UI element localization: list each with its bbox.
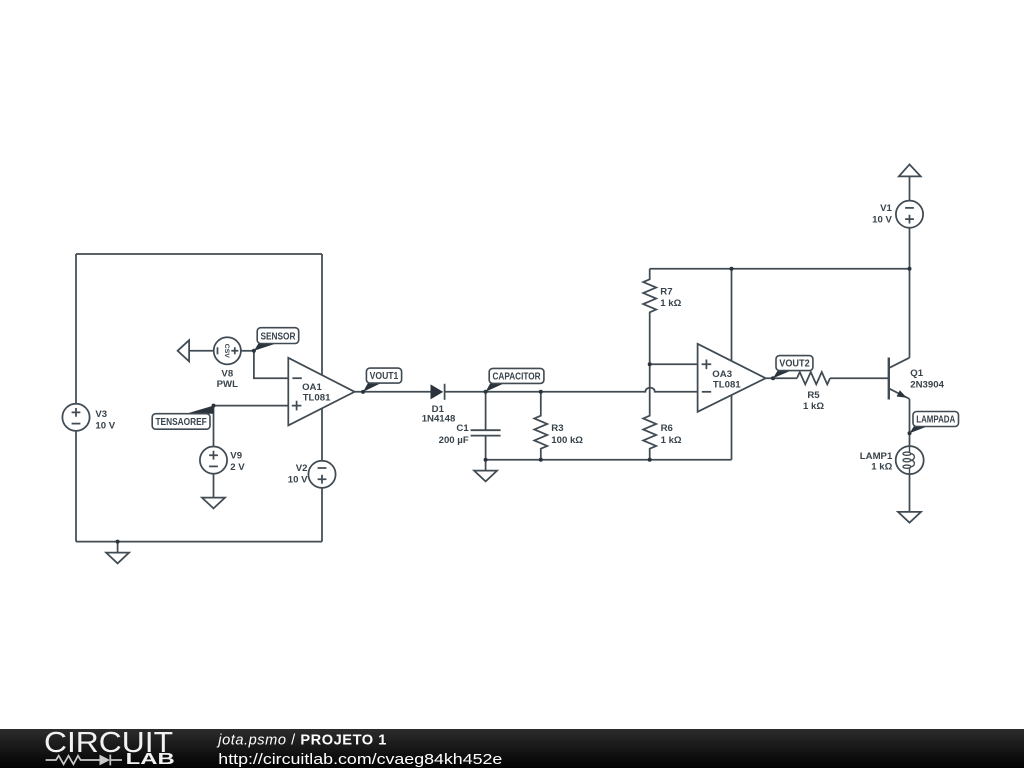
wire OA3 positive supply pin — [731, 269, 733, 460]
wire TENSAOREF node to OA1 non-inverting input — [214, 405, 289, 407]
wire V1 top to power flag — [909, 176, 911, 200]
wire V9 to ground — [213, 474, 215, 498]
net flag LAMPADA — [910, 427, 928, 434]
svg-text:V3: V3 — [95, 409, 107, 420]
wire bottom rail ground stem — [485, 460, 487, 471]
voltage source V2 10 V (minus on top) — [308, 461, 335, 488]
svg-text:1 kΩ: 1 kΩ — [803, 401, 824, 412]
node OA3 supply — [730, 267, 734, 271]
svg-text:R3: R3 — [551, 423, 563, 434]
resistor R5 body — [797, 372, 830, 384]
svg-text:Q1: Q1 — [910, 368, 923, 379]
net flag VOUT2 — [773, 371, 791, 379]
wire V8 plus to SENSOR node — [241, 350, 254, 352]
node loop bottom / ground — [116, 540, 120, 544]
wire D1 cathode to CAPACITOR node to R3 node, hop over R6/R7 branch, to OA3 inverting input — [445, 388, 698, 392]
svg-text:10 V: 10 V — [95, 421, 115, 432]
svg-text:1 kΩ: 1 kΩ — [871, 462, 892, 473]
svg-text:PWL: PWL — [217, 379, 238, 390]
svg-text:LAB: LAB — [126, 751, 175, 768]
net flag CAPACITOR — [486, 383, 504, 391]
wire C1 bottom plate down to bottom rail — [485, 436, 487, 460]
wire loop bottom node to ground — [117, 542, 119, 553]
input pin arrow at V8 — [178, 340, 190, 361]
wire OA3 output to R5 — [766, 377, 797, 379]
svg-text:SENSOR: SENSOR — [260, 332, 296, 343]
resistor R6 body — [643, 364, 656, 460]
node CAPACITOR — [484, 390, 488, 394]
svg-text:TENSAOREF: TENSAOREF — [155, 417, 206, 428]
svg-text:10 V: 10 V — [872, 215, 892, 226]
svg-text:V2: V2 — [296, 463, 308, 474]
svg-text:1N4148: 1N4148 — [422, 414, 456, 425]
voltage source V8 PWL (horizontal) — [214, 337, 241, 364]
transistor Q1 2N3904 — [888, 358, 890, 400]
svg-text:C1: C1 — [456, 423, 469, 434]
wire OA1 output to diode D1 — [355, 391, 431, 393]
wire TENSAOREF node down to V9 — [213, 406, 215, 447]
svg-text:2 V: 2 V — [230, 462, 245, 473]
wire CAPACITOR node down to C1 top plate — [485, 392, 487, 430]
ground below V9 — [202, 498, 225, 509]
wire input arrow to V8 — [189, 350, 214, 352]
voltage source V1 10 V (minus on top) — [896, 201, 923, 228]
net flag TENSAOREF — [186, 406, 214, 414]
node VOUT1 — [361, 390, 365, 394]
svg-text:1 kΩ: 1 kΩ — [660, 298, 681, 309]
node R3 top — [539, 390, 543, 394]
resistor R7 body — [643, 269, 656, 365]
net flag VOUT1 — [363, 383, 381, 392]
svg-text:2N3904: 2N3904 — [910, 380, 944, 391]
wire top edge of loop — [76, 253, 322, 255]
svg-text:200 µF: 200 µF — [439, 435, 469, 446]
node SENSOR — [252, 349, 256, 353]
capacitor C1 plates — [471, 430, 501, 435]
resistor R3 body — [534, 392, 547, 460]
ground below C1 bottom rail — [474, 471, 497, 482]
wire left loop: left edge with V3 — [75, 254, 77, 542]
voltage source V9 2 V — [200, 447, 227, 474]
wire SENSOR node down to OA1 inverting input — [254, 351, 288, 378]
diode D1 1N4148 — [431, 384, 444, 399]
svg-text:OA1: OA1 — [302, 382, 322, 393]
node TENSAOREF — [212, 404, 216, 408]
svg-text:http://circuitlab.com/cvaeg84k: http://circuitlab.com/cvaeg84kh452e — [218, 751, 502, 768]
wire right edge of loop / OA1 power rail through V2 — [321, 254, 323, 542]
svg-text:R6: R6 — [661, 423, 673, 434]
svg-text:TL081: TL081 — [303, 393, 331, 404]
svg-text:V1: V1 — [880, 203, 892, 214]
svg-text:1 kΩ: 1 kΩ — [661, 435, 682, 446]
svg-text:V8: V8 — [221, 368, 233, 379]
lamp LAMP1 symbol — [896, 446, 924, 474]
wire R7/R6 node to OA3 non-inverting input — [650, 363, 698, 365]
wire bottom rail from C1 to R3 to R6 to OA3 negative supply pin — [486, 459, 732, 461]
wire LAMP1 to ground — [909, 474, 911, 512]
node R3 bottom — [539, 458, 543, 462]
node VOUT2 — [771, 376, 775, 380]
power flag arrow above V1 — [899, 164, 921, 176]
node R6 bottom — [648, 458, 652, 462]
svg-text:LAMPADA: LAMPADA — [916, 415, 955, 426]
svg-text:R7: R7 — [660, 286, 672, 297]
node C1 bottom — [484, 458, 488, 462]
ground below loop bottom — [106, 553, 129, 564]
CircuitLab logo resistor-diode squiggle — [46, 755, 122, 766]
wire Q1 emitter down to LAMPADA node and LAMP1 — [909, 399, 911, 446]
net flag SENSOR — [254, 344, 276, 351]
svg-text:TL081: TL081 — [713, 380, 741, 391]
svg-text:V9: V9 — [230, 451, 242, 462]
svg-text:VOUT2: VOUT2 — [779, 359, 810, 370]
svg-text:CSV: CSV — [223, 344, 230, 358]
svg-text:OA3: OA3 — [712, 369, 732, 380]
svg-text:10 V: 10 V — [288, 475, 308, 486]
wire bottom edge of loop — [76, 541, 322, 543]
wire R5 to Q1 base — [830, 377, 889, 379]
op-amp OA3 triangle — [698, 344, 766, 412]
op-amp OA1 triangle — [288, 358, 354, 426]
svg-text:jota.psmo / PROJETO 1: jota.psmo / PROJETO 1 — [216, 732, 387, 748]
svg-text:LAMP1: LAMP1 — [860, 451, 893, 462]
ground below LAMP1 — [898, 512, 921, 523]
node V1/Q1 collector — [908, 267, 912, 271]
wire top rail from R7 to OA3 positive supply pin to V1 — [650, 268, 910, 270]
svg-text:R5: R5 — [807, 390, 820, 401]
svg-text:CAPACITOR: CAPACITOR — [492, 371, 541, 382]
wire V1 to top rail node down to Q1 collector — [909, 228, 911, 358]
svg-text:100 kΩ: 100 kΩ — [551, 435, 583, 446]
voltage source V3 10 V — [62, 404, 89, 431]
bottom bar background — [0, 729, 1024, 768]
node R7/R6/OA3+ — [648, 362, 652, 366]
svg-text:VOUT1: VOUT1 — [370, 371, 399, 382]
node LAMPADA — [908, 431, 912, 435]
